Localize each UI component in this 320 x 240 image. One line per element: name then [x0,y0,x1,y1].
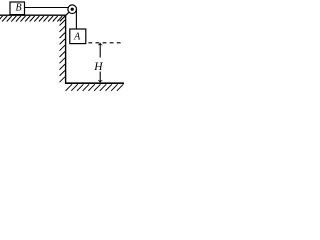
pulley strut [60,9,72,21]
rope from B to pulley [25,7,69,9]
hatching under ground [66,84,124,91]
block A [70,29,86,44]
up arrowhead [98,43,103,46]
down arrowhead [98,80,103,83]
wall (vertical face of step) [65,15,67,84]
ground line [65,82,124,84]
measure line lower segment [99,72,101,83]
svg-text:H: H [93,61,103,73]
pulley wheel [68,5,77,14]
svg-text:B: B [16,3,22,14]
table top surface [0,14,66,16]
pulley hub [71,8,74,11]
svg-text:A: A [73,32,81,43]
dashed reference line [88,42,121,44]
hatching on wall left side [60,20,66,82]
hatching under table top [0,16,62,22]
rope from pulley to A [75,9,77,29]
measure line upper segment [99,43,101,57]
block B [10,2,25,15]
